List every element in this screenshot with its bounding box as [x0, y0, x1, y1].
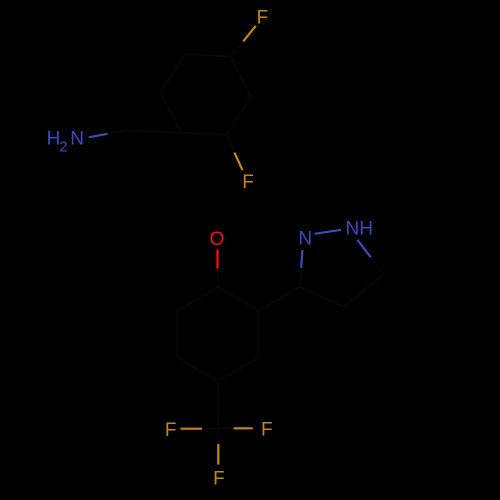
wire N-NH bond — [315, 230, 341, 234]
wire ring-CF3 bond — [217, 381, 220, 429]
svg-text:2: 2 — [59, 139, 67, 156]
wire N1-C3 nitrogen half — [301, 250, 302, 268]
svg-text:NH: NH — [346, 219, 373, 240]
wire CH2-ring bond — [126, 130, 181, 132]
svg-text:F: F — [165, 420, 177, 441]
wire pyrazole N halves (carbon side) — [300, 257, 384, 287]
pyrazole ring carbon bonds — [300, 274, 384, 307]
svg-text:N: N — [70, 128, 84, 149]
wire O-C oxygen half — [216, 250, 218, 269]
benzene ring (upper, difluorophenyl) — [160, 54, 251, 135]
svg-text:F: F — [257, 8, 269, 29]
wire C-F2 carbon half — [226, 135, 234, 153]
wire C-F2 fluorine half — [234, 153, 242, 171]
wire C-F4 fluorine half — [234, 427, 253, 429]
wire C-F3 fluorine half — [181, 428, 203, 430]
wire C-F1 carbon half — [231, 41, 244, 56]
svg-text:F: F — [261, 420, 273, 441]
wire CH2-N carbon half — [108, 130, 126, 133]
svg-text:N: N — [298, 229, 312, 250]
benzene ring (lower, CF3-phenyl) — [177, 287, 258, 381]
wire NH-C5 nitrogen half — [357, 240, 371, 257]
wire N-CH2 nitrogen half — [89, 134, 108, 138]
wire C-F1 fluorine half — [243, 26, 256, 42]
wire biaryl bond — [259, 287, 300, 311]
wire CF3 carbon halves — [202, 428, 234, 444]
wire C-F5 fluorine half — [217, 444, 219, 465]
svg-text:F: F — [213, 468, 225, 489]
svg-text:O: O — [210, 229, 225, 250]
wire O-C carbon half — [217, 269, 220, 288]
svg-text:F: F — [242, 172, 254, 193]
